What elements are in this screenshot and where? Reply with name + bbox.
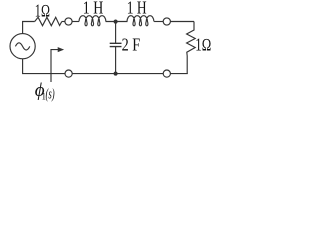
svg-text:1 H: 1 H — [127, 0, 147, 17]
capacitor C1 plates — [110, 43, 122, 46]
resistor R2 (load) — [187, 22, 196, 74]
capacitor C1 top lead — [115, 22, 117, 44]
inductor L2 — [127, 16, 154, 26]
svg-text:1Ω: 1Ω — [195, 34, 211, 54]
wire — [62, 21, 65, 23]
bottom wire left and source bottom stub — [23, 59, 65, 74]
flux marker phi1 stem — [51, 50, 59, 82]
bottom wire right — [170, 73, 187, 75]
svg-text:2 F: 2 F — [122, 35, 141, 55]
capacitor C1 bottom lead — [115, 47, 117, 74]
wire — [72, 21, 79, 23]
svg-text:(s): (s) — [46, 87, 55, 103]
svg-text:1 H: 1 H — [83, 0, 104, 17]
node terminal top-left — [65, 18, 72, 25]
bottom wire middle — [72, 73, 163, 75]
wire source top stub and top-left corner — [23, 22, 35, 34]
junction dot bottom — [114, 72, 117, 75]
junction dot top — [114, 20, 117, 23]
ac source V1 — [10, 34, 35, 59]
wire — [106, 21, 128, 23]
flux marker arrowhead — [58, 48, 63, 52]
node terminal top-right — [163, 18, 170, 25]
svg-text:1Ω: 1Ω — [35, 0, 50, 20]
wire — [154, 21, 163, 23]
node terminal bottom-right — [163, 70, 170, 77]
wire — [170, 21, 194, 23]
node terminal bottom-left — [65, 70, 72, 77]
resistor R1 — [35, 17, 62, 25]
inductor L1 — [79, 16, 106, 26]
